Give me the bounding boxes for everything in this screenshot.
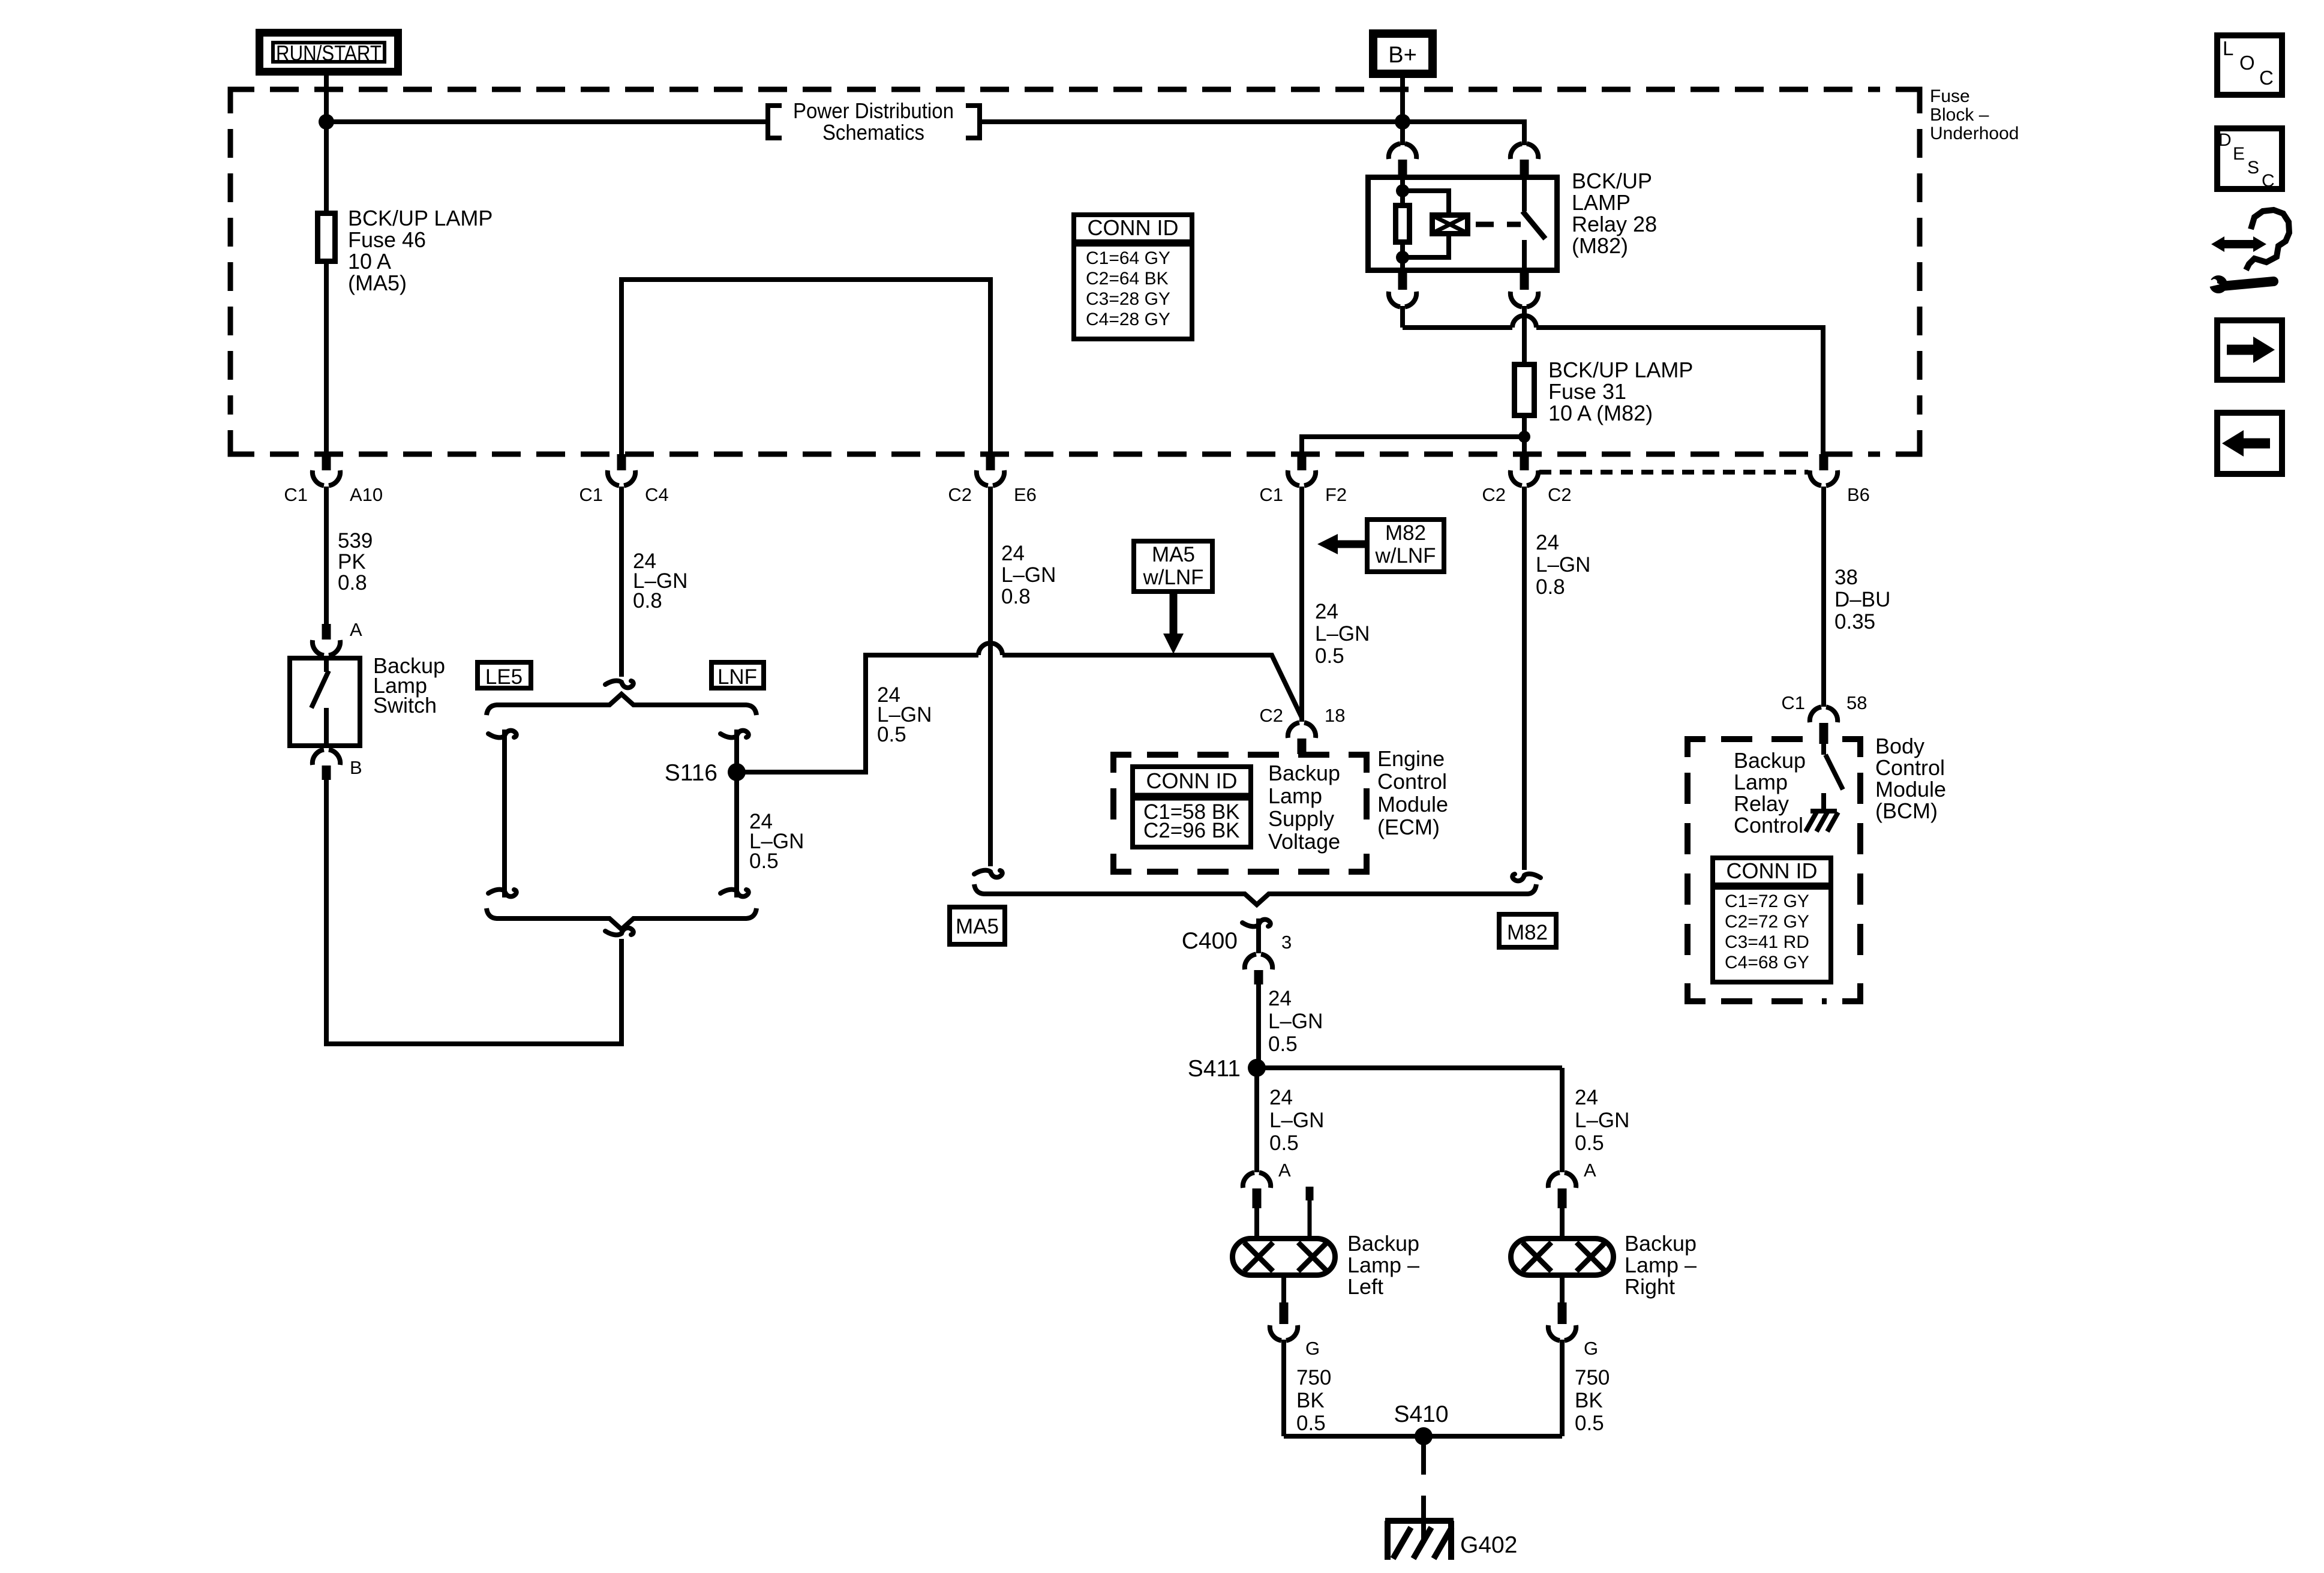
svg-text:0.8: 0.8 (1001, 585, 1031, 608)
svg-text:L: L (2223, 37, 2233, 59)
svg-text:Fuse 46: Fuse 46 (348, 227, 426, 252)
svg-text:C: C (2262, 171, 2275, 191)
svg-text:G: G (1584, 1338, 1598, 1359)
svg-text:18: 18 (1325, 705, 1345, 726)
svg-text:Underhood: Underhood (1930, 124, 2019, 143)
svg-text:38: 38 (1834, 566, 1858, 589)
svg-text:w/LNF: w/LNF (1142, 566, 1203, 589)
svg-text:L–GN: L–GN (1268, 1010, 1323, 1033)
svg-text:Supply: Supply (1268, 806, 1334, 831)
svg-text:LE5: LE5 (485, 665, 523, 689)
svg-text:C1: C1 (579, 484, 603, 505)
svg-text:C2: C2 (1548, 484, 1572, 505)
svg-text:C4: C4 (645, 484, 669, 505)
svg-text:10 A: 10 A (348, 249, 391, 274)
svg-text:D: D (2218, 130, 2232, 150)
svg-text:C2=72 GY: C2=72 GY (1725, 912, 1809, 932)
svg-text:Backup: Backup (1734, 748, 1806, 773)
svg-text:C1: C1 (284, 484, 308, 505)
svg-text:Switch: Switch (373, 693, 437, 718)
svg-text:24: 24 (1575, 1086, 1598, 1109)
svg-text:MA5: MA5 (956, 915, 999, 938)
svg-text:750: 750 (1296, 1366, 1331, 1389)
svg-text:10 A (M82): 10 A (M82) (1548, 401, 1653, 425)
svg-text:24: 24 (1001, 542, 1025, 565)
svg-text:S411: S411 (1188, 1056, 1241, 1082)
svg-text:C2=64 BK: C2=64 BK (1086, 269, 1169, 289)
svg-text:58: 58 (1846, 692, 1867, 713)
svg-text:24: 24 (1268, 987, 1292, 1010)
svg-text:CONN ID: CONN ID (1727, 858, 1818, 883)
svg-text:A: A (1584, 1160, 1596, 1181)
svg-text:L–GN: L–GN (1269, 1109, 1324, 1132)
svg-text:w/LNF: w/LNF (1374, 544, 1436, 568)
svg-text:750: 750 (1575, 1366, 1610, 1389)
svg-text:S116: S116 (665, 760, 717, 786)
svg-text:G: G (1305, 1338, 1320, 1359)
svg-text:C1=72 GY: C1=72 GY (1725, 891, 1809, 911)
svg-text:Right: Right (1625, 1274, 1675, 1299)
svg-text:B6: B6 (1847, 484, 1870, 505)
svg-text:G402: G402 (1460, 1532, 1517, 1558)
svg-text:3: 3 (1281, 932, 1292, 953)
svg-text:C3=28 GY: C3=28 GY (1086, 289, 1170, 309)
svg-text:0.5: 0.5 (1296, 1412, 1326, 1435)
svg-text:24: 24 (1315, 600, 1338, 623)
svg-text:C2: C2 (948, 484, 972, 505)
svg-text:L–GN: L–GN (1315, 622, 1370, 646)
svg-text:M82: M82 (1507, 921, 1548, 944)
svg-text:O: O (2239, 52, 2255, 74)
svg-text:PK: PK (338, 550, 366, 574)
svg-text:(BCM): (BCM) (1875, 798, 1938, 823)
svg-text:Backup: Backup (1268, 761, 1340, 785)
svg-text:S410: S410 (1394, 1401, 1448, 1427)
svg-text:Voltage: Voltage (1268, 829, 1340, 854)
svg-text:A: A (350, 619, 362, 640)
svg-text:C4=28 GY: C4=28 GY (1086, 310, 1170, 329)
svg-text:Module: Module (1377, 792, 1448, 816)
svg-text:0.5: 0.5 (877, 723, 906, 746)
svg-text:BCK/UP: BCK/UP (1572, 169, 1652, 193)
svg-text:B: B (350, 757, 362, 778)
svg-text:Fuse: Fuse (1930, 86, 1970, 106)
svg-text:24: 24 (1269, 1086, 1293, 1109)
svg-text:MA5: MA5 (1152, 543, 1195, 566)
svg-text:BK: BK (1575, 1389, 1603, 1412)
svg-text:A10: A10 (350, 484, 383, 505)
svg-text:Control: Control (1377, 769, 1447, 794)
svg-text:Module: Module (1875, 777, 1946, 801)
svg-text:C1=64 GY: C1=64 GY (1086, 248, 1170, 268)
svg-text:C2: C2 (1259, 705, 1283, 726)
svg-text:E6: E6 (1014, 484, 1037, 505)
svg-text:0.5: 0.5 (1575, 1131, 1604, 1155)
svg-text:0.8: 0.8 (633, 589, 662, 613)
svg-text:C400: C400 (1182, 928, 1238, 954)
svg-text:C1: C1 (1259, 484, 1283, 505)
svg-text:0.35: 0.35 (1834, 610, 1875, 634)
svg-text:539: 539 (338, 529, 373, 553)
svg-text:C: C (2259, 67, 2274, 89)
svg-text:M82: M82 (1385, 521, 1426, 545)
svg-text:B+: B+ (1388, 43, 1417, 68)
svg-text:Engine: Engine (1377, 746, 1445, 771)
svg-text:LNF: LNF (717, 665, 757, 689)
svg-text:Lamp: Lamp (1268, 784, 1322, 808)
svg-text:CONN ID: CONN ID (1088, 215, 1179, 240)
svg-text:(ECM): (ECM) (1377, 815, 1440, 839)
svg-text:C2=96 BK: C2=96 BK (1143, 819, 1240, 842)
svg-text:L–GN: L–GN (1575, 1109, 1629, 1132)
svg-text:0.8: 0.8 (1536, 575, 1565, 599)
svg-text:C4=68 GY: C4=68 GY (1725, 953, 1809, 972)
svg-text:L–GN: L–GN (1001, 563, 1056, 587)
svg-text:0.5: 0.5 (749, 849, 779, 873)
svg-text:BCK/UP LAMP: BCK/UP LAMP (348, 206, 493, 230)
svg-text:BK: BK (1296, 1389, 1325, 1412)
svg-text:0.8: 0.8 (338, 571, 367, 595)
svg-text:A: A (1278, 1160, 1291, 1181)
svg-text:RUN/START: RUN/START (276, 41, 382, 65)
svg-text:Backup: Backup (1625, 1231, 1697, 1256)
svg-text:(MA5): (MA5) (348, 271, 407, 295)
svg-text:S: S (2247, 158, 2259, 178)
svg-text:F2: F2 (1325, 484, 1347, 505)
svg-text:Backup: Backup (1347, 1231, 1419, 1256)
svg-text:Control: Control (1734, 813, 1803, 837)
svg-text:Lamp –: Lamp – (1347, 1253, 1419, 1277)
svg-text:Power Distribution: Power Distribution (793, 98, 954, 123)
svg-text:E: E (2233, 144, 2245, 164)
svg-text:24: 24 (1536, 531, 1559, 554)
svg-text:LAMP: LAMP (1572, 190, 1631, 215)
svg-text:Block –: Block – (1930, 105, 1989, 125)
svg-text:C1: C1 (1781, 692, 1805, 713)
svg-text:Schematics: Schematics (822, 120, 924, 145)
svg-text:(M82): (M82) (1572, 233, 1628, 258)
svg-text:Relay: Relay (1734, 791, 1789, 816)
svg-text:0.5: 0.5 (1268, 1032, 1298, 1056)
svg-text:0.5: 0.5 (1269, 1131, 1299, 1155)
svg-text:C2: C2 (1482, 484, 1506, 505)
svg-text:0.5: 0.5 (1315, 644, 1344, 668)
svg-text:Lamp: Lamp (1734, 770, 1788, 794)
svg-text:C3=41 RD: C3=41 RD (1725, 932, 1809, 952)
svg-text:L–GN: L–GN (1536, 553, 1590, 577)
svg-text:BCK/UP LAMP: BCK/UP LAMP (1548, 358, 1693, 382)
svg-text:D–BU: D–BU (1834, 588, 1890, 611)
svg-text:Body: Body (1875, 734, 1924, 758)
svg-text:CONN ID: CONN ID (1146, 769, 1238, 793)
svg-text:Control: Control (1875, 755, 1945, 780)
svg-text:Fuse 31: Fuse 31 (1548, 379, 1626, 404)
svg-text:0.5: 0.5 (1575, 1412, 1604, 1435)
svg-text:Left: Left (1347, 1274, 1383, 1299)
svg-text:Relay 28: Relay 28 (1572, 212, 1657, 236)
svg-text:Lamp –: Lamp – (1625, 1253, 1697, 1277)
